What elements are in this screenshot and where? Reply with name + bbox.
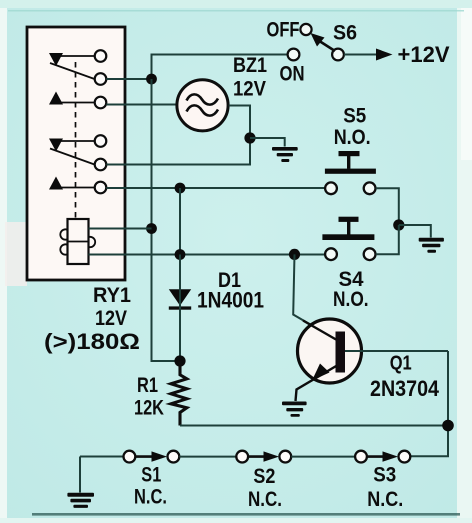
wire bottom long (R1 to collector line) [180, 425, 448, 427]
buzzer wave bottom [187, 105, 219, 115]
relay pin 2 [95, 73, 107, 85]
S5 bridge bar [325, 169, 376, 174]
relay contact fixed NC triangle (up) set 1 [49, 92, 63, 105]
D1 cathode bar [169, 306, 191, 309]
S5 contact left [325, 182, 337, 194]
resistor R1 [171, 361, 187, 426]
relay RY1 box [27, 27, 125, 280]
wire junction to ground [250, 138, 285, 147]
wire D1 vertical [179, 255, 181, 362]
wire coil bottom pin to S4 row [89, 254, 326, 256]
relay contact line to pin 6 [60, 187, 95, 189]
svg-text:OFF: OFF [267, 18, 300, 42]
svg-text:+12V: +12V [398, 42, 450, 67]
ground (bottom left) [79, 457, 81, 493]
relay RY1 [27, 27, 125, 280]
Q1 base lead inside [303, 321, 336, 340]
buzzer wave top [187, 94, 219, 104]
background white patch left of relay box [5, 222, 27, 286]
wire main vertical line to S6 [152, 55, 288, 80]
S4 stem [347, 221, 350, 235]
S4 cap [339, 217, 359, 222]
ground (S4/S5) [419, 238, 444, 253]
wire junction to ground right [399, 225, 431, 238]
relay contact line to pin 1 [60, 55, 95, 57]
junction S4 row [175, 249, 186, 260]
wire main vertical down [152, 79, 181, 361]
relay pin 3 [95, 97, 107, 109]
relay pin 6 [95, 182, 107, 194]
wire S5 branch down to S4 row [179, 188, 181, 255]
scan artifact line top [8, 10, 464, 12]
svg-text:S3: S3 [373, 463, 396, 487]
D1 anode triangle [169, 289, 191, 305]
S4 contact left [325, 248, 337, 260]
Q1 collector lead [345, 350, 448, 352]
wire S5 right to ground branch [376, 188, 399, 225]
svg-text:12K: 12K [134, 396, 164, 420]
Q1 emitter lead [296, 366, 338, 402]
junction D1/R1 [174, 355, 185, 366]
relay contact line to pin 4 [60, 140, 95, 142]
junction coil top [146, 223, 157, 234]
relay contact fixed NC triangle (up) set 2 [49, 177, 63, 190]
relay pin 1 [95, 50, 107, 62]
relay coil mid line [68, 241, 89, 243]
S4 bridge bar [322, 234, 374, 240]
wire pin3 to buzzer [106, 104, 177, 106]
wire S2 to S3 [291, 456, 355, 458]
wire pin6 to S5 [106, 187, 325, 189]
relay armature set 2 [50, 149, 95, 165]
S4 contact right [364, 248, 376, 260]
Q1 body [298, 319, 362, 383]
switch S6 [288, 24, 344, 61]
wire ground to S1 [80, 456, 124, 458]
switch S2 [236, 451, 291, 463]
svg-text:BZ1: BZ1 [233, 53, 267, 77]
junction buzzer ground [244, 132, 255, 143]
svg-text:N.O.: N.O. [334, 125, 371, 149]
scan artifact line bottom [32, 513, 460, 516]
S6 ON contact [288, 49, 300, 61]
svg-text:RY1: RY1 [93, 283, 131, 307]
wire coil top pin [89, 228, 152, 230]
relay coil body [68, 219, 89, 264]
wire pin2 to main vertical [106, 78, 151, 80]
svg-text:N.C.: N.C. [367, 487, 403, 511]
wire pin5 right [106, 138, 250, 165]
relay pin 4 [95, 135, 107, 147]
relay pin 5 [95, 159, 107, 171]
S5 contact right [364, 182, 376, 194]
switch S3 [355, 451, 410, 463]
S5 cap [339, 151, 360, 156]
svg-text:S5: S5 [343, 104, 366, 128]
pushbutton S4 [322, 217, 375, 260]
junction S4/S5 ground [393, 219, 404, 230]
buzzer BZ1 [177, 80, 228, 131]
svg-text:Q1: Q1 [390, 352, 412, 375]
svg-text:S2: S2 [253, 464, 275, 488]
svg-text:N.O.: N.O. [333, 287, 369, 311]
relay contact line to pin 3 [60, 102, 95, 104]
S5 stem [347, 155, 350, 169]
switch S1 [123, 451, 179, 463]
S6 pole [332, 49, 344, 61]
wire collector down to S3 [410, 351, 448, 456]
svg-text:12V: 12V [233, 77, 267, 101]
relay armature set 1 [50, 63, 95, 79]
relay coil bump right [85, 237, 95, 247]
relay coil bump left top [60, 229, 70, 239]
junction base branch [289, 249, 300, 260]
S6 OFF contact [300, 24, 311, 35]
junction pin2 [146, 74, 157, 85]
svg-text:N.C.: N.C. [134, 485, 167, 509]
Q1 base lead [293, 254, 336, 339]
junction S5 branch [175, 183, 186, 194]
relay RY1 dashed actuation line [75, 62, 77, 219]
S6 arm with arrow [317, 40, 335, 52]
svg-text:R1: R1 [137, 373, 158, 397]
wire S6 pole to +12V arrow [344, 54, 379, 56]
ground (buzzer) [272, 147, 298, 162]
relay coil bump left bottom [60, 244, 70, 254]
Q1 base bar [336, 332, 346, 373]
transistor Q1 [293, 254, 448, 401]
svg-text:ON: ON [280, 62, 305, 86]
svg-text:N.C.: N.C. [248, 487, 282, 511]
Q1 emitter arrow [312, 364, 330, 381]
relay contact fixed NO triangle (down) set 2 [49, 139, 63, 152]
diode D1 [169, 255, 191, 362]
svg-text:S6: S6 [333, 21, 357, 45]
svg-text:S1: S1 [141, 463, 161, 487]
ground (Q1 emitter) [282, 402, 307, 417]
svg-text:(>)180Ω: (>)180Ω [44, 329, 140, 354]
wire S4 right up to junction [376, 225, 399, 254]
relay contact fixed NO triangle (down) set 1 [49, 53, 63, 66]
pushbutton S5 [325, 151, 376, 194]
svg-text:2N3704: 2N3704 [370, 376, 439, 401]
wire S1 to S2 [179, 456, 236, 458]
svg-text:12V: 12V [95, 306, 128, 330]
wire buzzer right to junction [229, 106, 250, 139]
junction collector/bottom [442, 420, 454, 432]
svg-text:1N4001: 1N4001 [197, 288, 264, 313]
